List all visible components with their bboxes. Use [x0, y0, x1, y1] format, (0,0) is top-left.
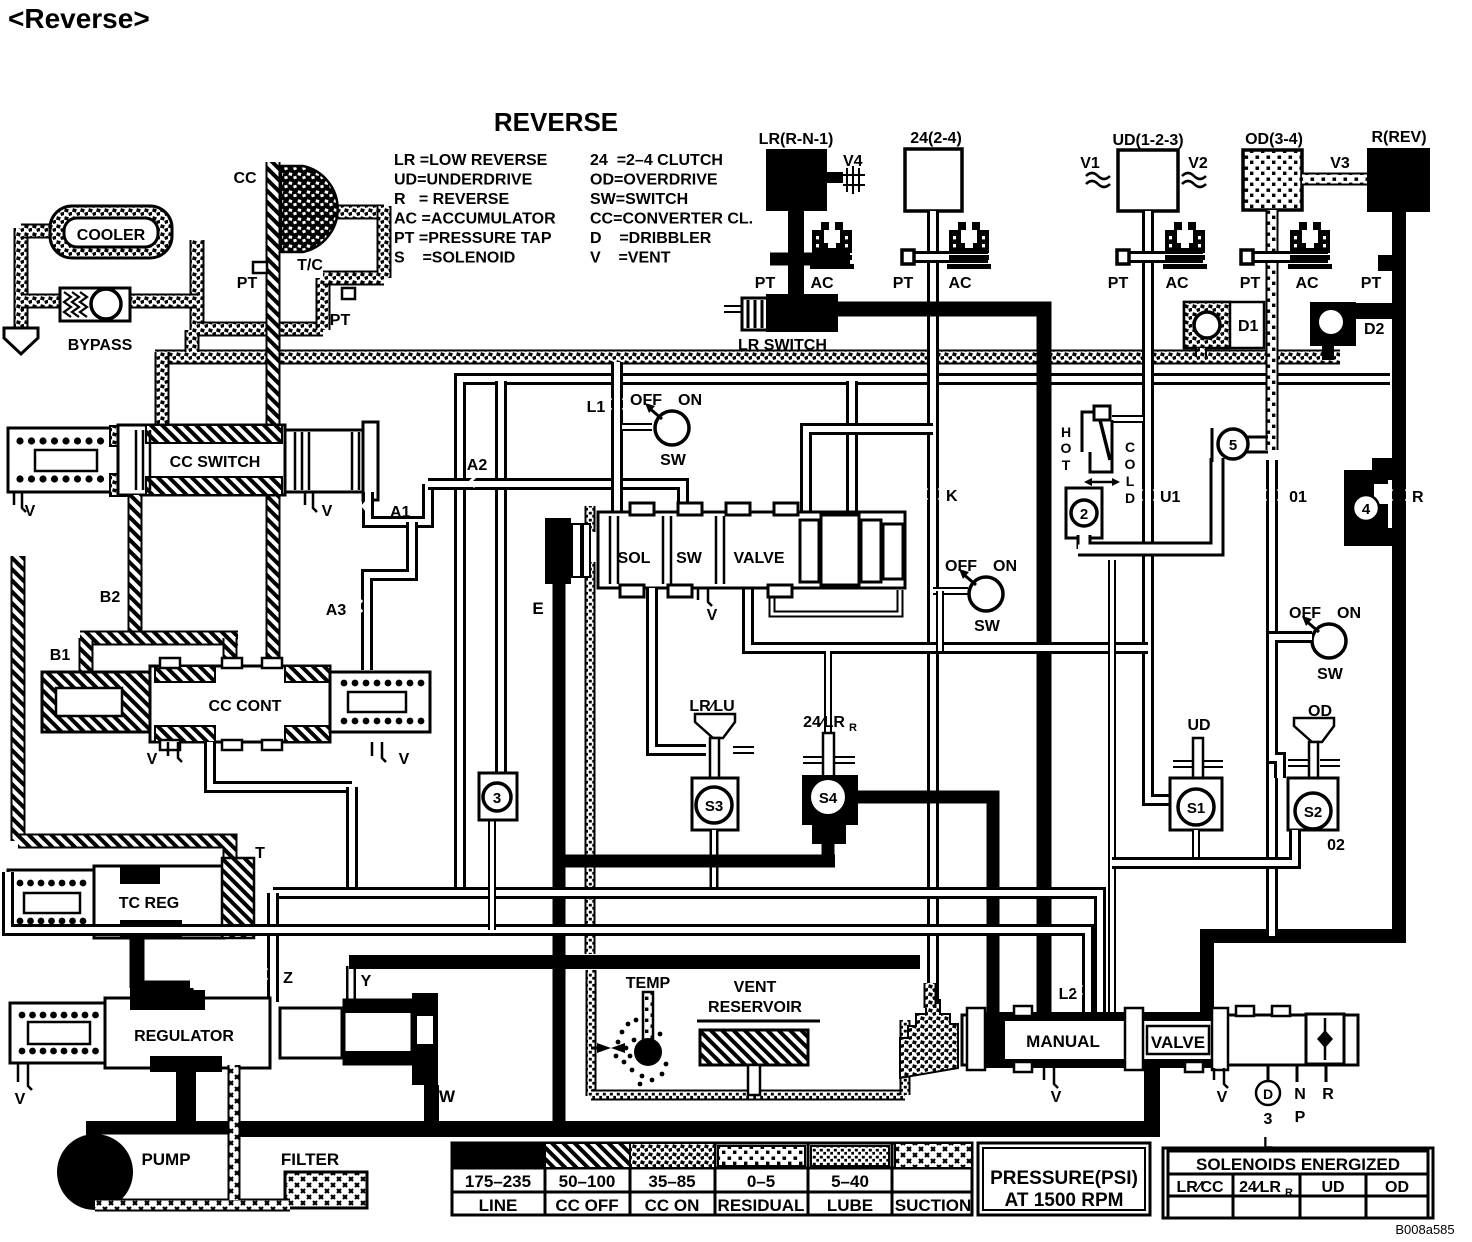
svg-text:D2: D2 — [1364, 321, 1385, 338]
svg-text:O: O — [1125, 456, 1136, 472]
valve 4 box (black) — [1344, 470, 1388, 546]
svg-text:S1: S1 — [1187, 800, 1205, 817]
svg-text:V1: V1 — [1080, 155, 1100, 172]
svg-text:R = REVERSE: R = REVERSE — [394, 191, 509, 208]
svg-text:24⁄LR: 24⁄LR — [803, 714, 845, 731]
svg-text:PT: PT — [755, 275, 776, 292]
thermal valve HOT/COLD — [1082, 412, 1103, 452]
clutch OD(3-4) — [1243, 150, 1302, 210]
svg-text:B1: B1 — [50, 647, 71, 664]
svg-text:B008a585: B008a585 — [1395, 1222, 1454, 1237]
svg-text:PT: PT — [1361, 275, 1382, 292]
wire 24 PT crossbar — [910, 251, 988, 263]
wire S1S2 bottom line H4 — [1112, 830, 1295, 863]
wire Z line — [267, 893, 279, 1002]
svg-text:CC CONT: CC CONT — [209, 698, 282, 715]
svg-text:V: V — [322, 503, 333, 520]
svg-text:02: 02 — [1327, 837, 1345, 854]
svg-text:5–40: 5–40 — [831, 1172, 869, 1191]
pressure legend table grid — [452, 1143, 972, 1215]
torque converter dome — [281, 166, 338, 252]
svg-text:LR SWITCH: LR SWITCH — [738, 337, 827, 354]
wire line-A2 upper manifold H1 — [460, 379, 1390, 893]
svg-text:V: V — [147, 751, 158, 768]
wire UD clutch line U1 — [1148, 211, 1172, 800]
svg-text:REGULATOR: REGULATOR — [134, 1028, 234, 1045]
svg-text:35–85: 35–85 — [648, 1172, 695, 1191]
svg-text:SW: SW — [660, 452, 687, 469]
pressure tap PT lower (T/C) — [342, 288, 355, 299]
svg-text:V: V — [15, 1091, 26, 1108]
node S2 circle — [1295, 793, 1331, 829]
wire B2 line (hatched) — [128, 495, 143, 640]
svg-text:3: 3 — [493, 790, 501, 807]
wire cooler loop top (pebble) — [21, 224, 55, 239]
node D position label — [1256, 1081, 1280, 1105]
svg-text:AC: AC — [1295, 275, 1319, 292]
svg-text:L2: L2 — [1059, 986, 1078, 1003]
LR switch body (black) — [766, 294, 838, 332]
solenoid valve S1 — [1170, 778, 1222, 830]
S1 stem — [1173, 760, 1223, 768]
svg-text:S =SOLENOID: S =SOLENOID — [394, 250, 515, 267]
svg-text:VALVE: VALVE — [1151, 1033, 1205, 1052]
clutch UD(1-2-3) — [1118, 150, 1178, 211]
node circle 4 — [1353, 495, 1379, 521]
svg-text:PUMP: PUMP — [141, 1150, 190, 1169]
CC CONT left spring chamber — [42, 672, 150, 732]
svg-text:COOLER: COOLER — [77, 227, 146, 244]
wire valve to S3 funnel — [652, 588, 706, 750]
svg-text:SW: SW — [974, 618, 1001, 635]
svg-text:UD=UNDERDRIVE: UD=UNDERDRIVE — [394, 172, 533, 189]
wire B1 drop right (hatched) — [223, 638, 238, 672]
svg-text:UD(1-2-3): UD(1-2-3) — [1112, 132, 1183, 149]
svg-text:V: V — [399, 751, 410, 768]
accumulator AC for LR — [810, 222, 854, 269]
node S3 circle — [696, 787, 732, 823]
wire SW1 stub — [622, 423, 652, 431]
wire CC CONT bottom pipe — [210, 742, 352, 787]
regulator body — [105, 998, 270, 1068]
TC REG left spring chamber — [8, 870, 94, 934]
svg-text:4: 4 — [1362, 501, 1371, 518]
wire D1 stem — [1195, 348, 1207, 357]
wire B1 loop left edge (hatched) — [11, 556, 26, 841]
svg-text:D: D — [1263, 1086, 1273, 1102]
reservoir right wall (lube) — [900, 1020, 911, 1095]
solenoid valve spools — [610, 516, 724, 584]
svg-text:SOL: SOL — [618, 550, 651, 567]
vent V (CC switch left) — [14, 492, 26, 512]
svg-text:SW: SW — [1317, 666, 1344, 683]
svg-text:LR⁄LU: LR⁄LU — [689, 698, 734, 715]
svg-text:ON: ON — [993, 558, 1017, 575]
wire LR switch left stub — [724, 305, 744, 313]
S2 funnel — [1294, 718, 1334, 742]
vent V (manual valve right) — [1214, 1068, 1228, 1088]
pump body — [95, 1133, 230, 1207]
CC switch body — [118, 425, 285, 495]
svg-text:SUCTION: SUCTION — [895, 1196, 972, 1215]
svg-text:A2: A2 — [467, 457, 488, 474]
svg-text:T: T — [255, 845, 265, 862]
wire SW3 to S2 line — [1272, 637, 1312, 778]
swatch CC ON (pebble) — [630, 1143, 715, 1168]
wire pump outlet band (thick) — [86, 1121, 1160, 1137]
svg-text:01: 01 — [1289, 489, 1307, 506]
wire cooler loop right (pebble) — [190, 240, 205, 330]
wire TC right wall (pebble) — [323, 206, 384, 278]
CC switch left spring chamber — [8, 428, 118, 492]
svg-text:<Reverse>: <Reverse> — [8, 3, 150, 34]
vent V (solenoid valve) — [698, 588, 712, 606]
filter block — [285, 1172, 367, 1208]
swatch CC OFF (hatch) — [545, 1143, 630, 1168]
wire Y supply (thick) — [349, 955, 920, 969]
dribbler D1 — [1184, 302, 1264, 348]
node circle 5 — [1211, 428, 1214, 462]
wire K line pebble tail — [924, 983, 937, 1008]
vent V4 symbol — [827, 172, 843, 183]
svg-text:V3: V3 — [1330, 155, 1350, 172]
svg-text:Z: Z — [283, 970, 293, 987]
wire LR clutch feed (thick) — [788, 211, 804, 300]
swatch SUCTION — [895, 1143, 972, 1168]
vent V1 symbol — [1086, 173, 1110, 187]
wire valve bottom loop to S1 feed — [748, 588, 1148, 648]
wire bypass line (pebble) — [21, 294, 197, 309]
wire valve pipe to K line — [806, 429, 933, 512]
wire vertical valve pipe to H1 — [846, 381, 858, 512]
wire OD clutch dotted line — [1266, 210, 1279, 450]
vent V (regulator) — [18, 1063, 32, 1090]
vent V (CC switch right) — [305, 492, 317, 512]
svg-text:UD: UD — [1321, 1179, 1344, 1196]
svg-text:AC: AC — [1165, 275, 1189, 292]
wire TC REG bottom (thick) — [130, 938, 190, 1008]
svg-text:LR⁄CC: LR⁄CC — [1176, 1179, 1224, 1196]
node S4 circle — [811, 780, 845, 814]
svg-text:24⁄LR: 24⁄LR — [1239, 1179, 1281, 1196]
svg-text:LINE: LINE — [479, 1196, 518, 1215]
S4 stem — [803, 756, 855, 764]
svg-text:SW=SWITCH: SW=SWITCH — [590, 191, 688, 208]
svg-text:OD(3-4): OD(3-4) — [1245, 131, 1303, 148]
svg-text:SW: SW — [676, 550, 703, 567]
wire circle3 drop — [488, 818, 496, 930]
node circle 3 — [483, 783, 511, 811]
svg-text:3: 3 — [1264, 1111, 1273, 1128]
node TC REG label — [104, 890, 196, 912]
wire LR switch output (thick) — [838, 309, 1044, 1015]
vent V (CC CONT right) — [372, 742, 386, 762]
svg-text:AT 1500 RPM: AT 1500 RPM — [1005, 1190, 1124, 1211]
wire E line (thick) — [553, 582, 566, 1128]
svg-text:V =VENT: V =VENT — [590, 250, 671, 267]
svg-text:ON: ON — [1337, 605, 1361, 622]
wire CC line (hatched vertical) — [266, 162, 281, 668]
accumulator AC for OD — [1288, 222, 1332, 269]
TC REG right hatched block — [222, 858, 254, 938]
svg-text:L: L — [1126, 473, 1135, 489]
solenoids energized table — [1163, 1148, 1433, 1218]
node circle 2 — [1071, 500, 1097, 526]
node CC SWITCH label — [155, 448, 275, 472]
wire thermal bottom pipe — [1078, 458, 1217, 549]
swatch RESIDUAL (dots) — [718, 1146, 805, 1166]
solenoid (black) at E — [545, 518, 571, 584]
wire pebble CC-ON main header line — [155, 350, 1340, 365]
wire S3 drain — [710, 830, 719, 893]
wire L1 line — [611, 362, 623, 512]
wire UD PT crossbar — [1125, 251, 1203, 263]
svg-text:PT: PT — [237, 275, 258, 292]
valve 3 box — [479, 773, 517, 820]
reservoir left wall (lube) — [586, 970, 597, 1096]
wire valve loop inner — [772, 590, 900, 614]
svg-text:R: R — [1322, 1086, 1334, 1103]
svg-text:O: O — [1061, 440, 1072, 456]
svg-text:V: V — [707, 607, 718, 624]
pressure tap PT on R line — [1378, 255, 1394, 271]
wire O1 line — [1266, 460, 1278, 936]
wire cooler loop left (pebble) — [14, 228, 29, 330]
svg-text:R(REV): R(REV) — [1371, 129, 1426, 146]
CC switch right spool — [285, 430, 378, 492]
svg-text:VENT: VENT — [734, 979, 777, 996]
svg-text:FILTER: FILTER — [281, 1150, 339, 1169]
node CC CONT label — [195, 692, 295, 716]
svg-text:PT: PT — [1240, 275, 1261, 292]
svg-text:SOLENOIDS ENERGIZED: SOLENOIDS ENERGIZED — [1196, 1155, 1400, 1174]
svg-text:H: H — [1061, 424, 1071, 440]
svg-text:0–5: 0–5 — [747, 1172, 775, 1191]
svg-text:TEMP: TEMP — [626, 975, 671, 992]
wire drop from circle2 region — [1108, 560, 1116, 1015]
wire cooler bottom line (pebble) — [197, 322, 323, 337]
svg-text:OD: OD — [1385, 1179, 1409, 1196]
reservoir tray — [697, 1020, 820, 1023]
svg-text:P: P — [1295, 1109, 1306, 1126]
svg-text:AC =ACCUMULATOR: AC =ACCUMULATOR — [394, 211, 556, 228]
W column (black) — [412, 993, 438, 1085]
wire drain drop to H893 — [346, 787, 358, 893]
wire OD PT crossbar — [1249, 251, 1328, 263]
wire TC return riser (pebble) — [316, 278, 331, 330]
CC CONT castellations — [160, 658, 180, 668]
wire long line H3 (L2 manifold) — [8, 872, 1088, 1015]
svg-text:D: D — [1125, 490, 1135, 506]
manual valve castellations — [1014, 1006, 1032, 1016]
wire suction riser — [228, 1065, 241, 1200]
svg-text:BYPASS: BYPASS — [68, 337, 133, 354]
svg-text:PT: PT — [330, 312, 351, 329]
wire vertical from H1 to circle 3 — [495, 381, 507, 773]
svg-text:K: K — [946, 488, 958, 505]
mound (pebble) at manual valve inlet — [900, 1000, 958, 1078]
svg-text:VALVE: VALVE — [734, 550, 785, 567]
wire S4 drain (thick) — [565, 840, 835, 861]
wire SW2 drop — [933, 587, 968, 595]
svg-text:TC REG: TC REG — [119, 895, 179, 912]
wire suction pan line — [95, 1199, 290, 1212]
svg-text:AC: AC — [810, 275, 834, 292]
wire circle5 stubs — [1247, 437, 1268, 452]
svg-text:D1: D1 — [1238, 318, 1259, 335]
CC CONT body — [150, 666, 330, 742]
svg-text:CC ON: CC ON — [645, 1196, 700, 1215]
svg-text:LUBE: LUBE — [827, 1196, 873, 1215]
svg-text:T: T — [1062, 457, 1071, 473]
wire 24 clutch line K — [927, 211, 939, 1003]
svg-text:PT: PT — [893, 275, 914, 292]
wire manual valve drain (thick) — [1144, 1065, 1160, 1128]
accumulator AC for 24 — [947, 222, 991, 269]
svg-text:5: 5 — [1229, 437, 1237, 454]
vent V (CC CONT left) — [168, 742, 182, 762]
wire B1 header (hatched) — [80, 631, 238, 646]
pressure tap PT upper (T/C) — [253, 262, 267, 273]
clutch R(REV) — [1367, 148, 1430, 212]
wire solenoid lube line — [585, 506, 596, 954]
svg-text:V: V — [1217, 1089, 1228, 1106]
svg-text:V: V — [25, 503, 36, 520]
svg-text:CC SWITCH: CC SWITCH — [170, 454, 261, 471]
CC switch pebble chunks — [110, 426, 128, 446]
svg-text:V: V — [1051, 1089, 1062, 1106]
manual valve body — [962, 1015, 1358, 1065]
svg-text:D =DRIBBLER: D =DRIBBLER — [590, 230, 712, 247]
svg-text:PT =PRESSURE TAP: PT =PRESSURE TAP — [394, 230, 552, 247]
svg-text:CC OFF: CC OFF — [555, 1196, 618, 1215]
svg-text:L1: L1 — [587, 399, 606, 416]
svg-text:LR =LOW REVERSE: LR =LOW REVERSE — [394, 152, 548, 169]
svg-text:24(2-4): 24(2-4) — [910, 130, 962, 147]
vent V2 symbol — [1182, 173, 1206, 187]
svg-text:175–235: 175–235 — [465, 1172, 531, 1191]
wire pebble riser to CC switch — [155, 352, 170, 428]
svg-text:T/C: T/C — [297, 257, 323, 274]
svg-text:C: C — [1125, 439, 1135, 455]
wire B1 bottom run (hatched) — [18, 841, 230, 870]
svg-text:REVERSE: REVERSE — [494, 107, 618, 137]
wire S1 bottom stub — [1192, 830, 1200, 863]
svg-text:A3: A3 — [326, 602, 347, 619]
svg-text:PRESSURE(PSI): PRESSURE(PSI) — [990, 1168, 1138, 1189]
wire Y line — [346, 966, 356, 1004]
svg-text:V2: V2 — [1188, 155, 1208, 172]
node REGULATOR label — [118, 1022, 250, 1046]
wire A3 line — [367, 522, 412, 670]
wire A2 line H2 — [428, 484, 683, 512]
svg-text:B2: B2 — [100, 589, 121, 606]
solenoid valve S4 (black) — [802, 775, 858, 825]
svg-text:N: N — [1294, 1086, 1306, 1103]
svg-text:CC=CONVERTER CL.: CC=CONVERTER CL. — [590, 211, 753, 228]
valve 2 chamber — [1066, 488, 1102, 538]
manual valve detent — [1306, 1014, 1344, 1064]
bypass valve — [60, 288, 130, 321]
svg-text:R: R — [849, 722, 857, 734]
svg-text:W: W — [439, 1087, 456, 1106]
svg-text:2: 2 — [1080, 506, 1088, 523]
solenoid valve body — [598, 512, 905, 588]
wire S4 output (thick) — [856, 797, 993, 1015]
wire B1 drop left (hatched) — [79, 638, 94, 678]
wire TC top run (pebble) — [330, 205, 384, 220]
clutch 24(2-4) — [905, 149, 962, 211]
regulator left spring chamber — [10, 1003, 105, 1063]
swatch LINE (black) — [452, 1143, 545, 1168]
node VALVE label (manual) — [1147, 1026, 1209, 1054]
regulator Y-spool — [280, 1008, 342, 1058]
svg-text:U1: U1 — [1160, 489, 1181, 506]
svg-text:UD: UD — [1187, 717, 1210, 734]
LR switch coil — [742, 298, 768, 330]
wire regulator drain (thick) — [176, 1068, 196, 1128]
svg-text:S3: S3 — [705, 798, 723, 815]
svg-text:R: R — [1285, 1187, 1293, 1199]
wire LR PT crossbar (thick) — [770, 253, 850, 266]
svg-text:A1: A1 — [390, 504, 411, 521]
vent V (manual valve left) — [1044, 1068, 1058, 1088]
manual valve position ticks — [1268, 1065, 1326, 1082]
svg-text:ON: ON — [678, 392, 702, 409]
temp spray dots — [620, 1030, 625, 1035]
clutch LR(R-N-1) — [766, 149, 827, 211]
svg-text:CC: CC — [233, 170, 257, 187]
svg-text:AC: AC — [948, 275, 972, 292]
svg-text:LR(R-N-1): LR(R-N-1) — [759, 131, 834, 148]
svg-text:E: E — [532, 599, 543, 618]
solenoid valve S3 — [692, 778, 738, 830]
svg-text:RESERVOIR: RESERVOIR — [708, 999, 802, 1016]
wire A1 line — [368, 484, 428, 522]
wire pebble riser from bypass loop — [185, 330, 200, 352]
node S1 circle — [1178, 789, 1214, 825]
svg-text:OFF: OFF — [630, 392, 662, 409]
arrow drain (cooler loop) — [4, 328, 38, 354]
svg-text:Y: Y — [361, 973, 372, 990]
svg-text:24 =2–4 CLUTCH: 24 =2–4 CLUTCH — [590, 152, 723, 169]
wire R clutch line (thick) — [1207, 212, 1399, 1015]
svg-text:S2: S2 — [1304, 804, 1322, 821]
dribbler D2 — [1310, 302, 1356, 346]
svg-text:MANUAL: MANUAL — [1026, 1032, 1100, 1051]
temp nozzle — [597, 1043, 625, 1053]
wire HOT/COLD to U1 top link — [1112, 415, 1143, 423]
node MANUAL label — [1008, 1026, 1118, 1052]
wire V3 dotted pipe — [1302, 173, 1367, 186]
svg-text:R: R — [1412, 489, 1424, 506]
wire D2 stem (black) — [1322, 346, 1334, 360]
S3 funnel — [695, 714, 735, 738]
reservoir bottom (lube) — [591, 1090, 905, 1101]
solenoid valve S2 — [1288, 778, 1338, 830]
pressure psi box — [978, 1143, 1150, 1215]
wire S4 feed from top — [824, 651, 832, 733]
svg-text:PT: PT — [1108, 275, 1129, 292]
pump circle (black) — [57, 1134, 133, 1210]
accumulator AC for UD — [1163, 222, 1207, 269]
svg-text:RESIDUAL: RESIDUAL — [718, 1196, 805, 1215]
CC CONT right spring chamber — [330, 672, 430, 732]
svg-text:OD=OVERDRIVE: OD=OVERDRIVE — [590, 172, 718, 189]
svg-text:50–100: 50–100 — [559, 1172, 616, 1191]
cooler body — [50, 206, 172, 258]
TC REG body — [94, 866, 224, 938]
